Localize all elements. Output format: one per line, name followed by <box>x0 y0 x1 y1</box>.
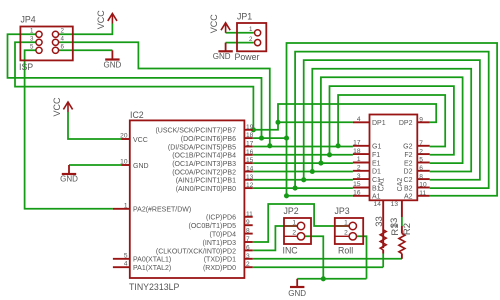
svg-text:2: 2 <box>344 230 348 237</box>
svg-text:1: 1 <box>249 26 253 33</box>
svg-text:9: 9 <box>246 219 250 226</box>
wire JP1.2 to GND <box>226 42 254 44</box>
svg-text:12: 12 <box>246 182 254 189</box>
svg-text:19: 19 <box>246 124 254 131</box>
wire display pin13 to R2 top <box>401 217 403 226</box>
wire RESET JP4.5 to PA2 <box>25 50 113 209</box>
junction net G <box>336 143 341 148</box>
svg-text:VCC: VCC <box>96 10 106 30</box>
junction net DP <box>275 120 280 125</box>
svg-text:6: 6 <box>419 165 423 172</box>
svg-text:1: 1 <box>124 202 128 209</box>
wire arc net B <box>295 52 489 189</box>
svg-text:2: 2 <box>357 164 361 171</box>
svg-text:GND: GND <box>213 52 231 61</box>
svg-text:ISP: ISP <box>19 62 33 72</box>
connector JP4 ISP header <box>20 27 72 61</box>
svg-text:PA2(#RESET/DW): PA2(#RESET/DW) <box>133 207 191 214</box>
svg-text:(AIN0/PCINT0)PB0: (AIN0/PCINT0)PB0 <box>176 186 236 193</box>
svg-text:F2: F2 <box>404 152 412 159</box>
wire IC2 pin 10 to GND <box>69 164 121 166</box>
wire ISP SCK JP4.3 to PB7 <box>15 42 253 130</box>
svg-text:GND: GND <box>104 60 122 69</box>
svg-text:9: 9 <box>419 117 423 124</box>
wire PD2 to JP2.1 INC <box>253 226 297 250</box>
svg-text:DP2: DP2 <box>399 120 413 127</box>
svg-text:1: 1 <box>357 156 361 163</box>
svg-text:11: 11 <box>419 190 426 197</box>
svg-text:5: 5 <box>124 252 128 259</box>
wire net E PB3 row to E1 <box>253 162 353 164</box>
svg-text:DP1: DP1 <box>372 120 386 127</box>
svg-text:11: 11 <box>246 211 253 218</box>
svg-text:(OC1A/PCINT3)PB3: (OC1A/PCINT3)PB3 <box>172 161 236 168</box>
junction GND rail <box>321 276 326 281</box>
svg-text:VCC: VCC <box>52 97 62 117</box>
svg-text:2: 2 <box>246 261 250 268</box>
VCC symbol at JP4 <box>108 14 117 24</box>
IC2 right pin stubs <box>244 129 252 131</box>
svg-text:14: 14 <box>246 165 254 172</box>
resistor R1 zigzag <box>380 230 386 250</box>
svg-text:8: 8 <box>246 228 250 235</box>
svg-text:PA0(XTAL1): PA0(XTAL1) <box>133 257 171 264</box>
svg-text:17: 17 <box>246 140 254 147</box>
svg-text:A1: A1 <box>372 194 381 201</box>
svg-text:D1: D1 <box>372 169 381 176</box>
wire arc net D <box>312 69 471 172</box>
svg-text:JP1: JP1 <box>237 12 252 22</box>
wire net A row to A1 <box>287 195 353 197</box>
GND symbol at IC2 pin 10 <box>68 165 70 174</box>
svg-text:1: 1 <box>292 219 296 226</box>
svg-text:JP4: JP4 <box>21 15 36 25</box>
IC2 left pin stubs <box>121 138 130 140</box>
wire JP4.2 to VCC <box>59 24 113 35</box>
IC U IC2 TINY2313LP body <box>130 120 245 278</box>
svg-text:4: 4 <box>357 116 361 123</box>
svg-text:(DI/SDA/PCINT5)PB5: (DI/SDA/PCINT5)PB5 <box>168 144 236 151</box>
svg-text:INC: INC <box>283 245 299 255</box>
svg-text:2: 2 <box>419 148 423 155</box>
junction net C <box>301 177 306 182</box>
svg-text:VCC: VCC <box>133 137 148 144</box>
svg-text:JP2: JP2 <box>284 206 299 216</box>
svg-text:2: 2 <box>249 36 253 43</box>
svg-text:2: 2 <box>292 230 296 237</box>
svg-text:18: 18 <box>353 148 361 155</box>
VCC symbol at IC2 pin 20 <box>63 102 72 112</box>
svg-text:R2: R2 <box>402 223 413 235</box>
svg-text:(RXD)PD0: (RXD)PD0 <box>203 265 236 272</box>
junction PB7/SCK <box>251 127 256 132</box>
svg-text:15: 15 <box>353 181 361 188</box>
svg-text:GND: GND <box>288 289 306 298</box>
wire PD0 row to R1 <box>253 266 384 268</box>
svg-text:8: 8 <box>419 173 423 180</box>
wire arc net C <box>304 60 480 180</box>
svg-text:(OC1B/PCINT4)PB4: (OC1B/PCINT4)PB4 <box>172 153 236 160</box>
svg-text:PA1(XTAL2): PA1(XTAL2) <box>133 265 171 272</box>
junction net E <box>318 161 323 166</box>
svg-text:3: 3 <box>246 253 250 260</box>
svg-text:(USCK/SCK/PCINT7)PB7: (USCK/SCK/PCINT7)PB7 <box>155 128 236 135</box>
svg-text:VCC: VCC <box>209 14 219 34</box>
wire net G PB5 row to G1 <box>253 146 353 148</box>
wire R1 bottom to PD0 row <box>382 254 384 268</box>
svg-text:16: 16 <box>353 189 361 196</box>
svg-text:4: 4 <box>61 36 65 43</box>
svg-text:7: 7 <box>246 236 250 243</box>
wire arc net A (A1-A2 over top) <box>287 43 498 196</box>
svg-text:7: 7 <box>419 140 423 147</box>
svg-text:(ICP)PD6: (ICP)PD6 <box>206 215 236 222</box>
junction net A at PB6 <box>284 136 289 141</box>
wire net D PB2 row to D1 <box>253 171 353 173</box>
svg-text:A2: A2 <box>404 194 413 201</box>
connector JP1 Power <box>237 23 266 51</box>
svg-text:(AIN1/PCINT1)PB1: (AIN1/PCINT1)PB1 <box>176 178 236 185</box>
svg-text:G2: G2 <box>403 144 412 151</box>
wire VCC to IC2 pin 20 <box>68 112 121 139</box>
svg-text:B2: B2 <box>404 185 413 192</box>
svg-text:GND: GND <box>60 175 78 184</box>
svg-text:(T0)PD4: (T0)PD4 <box>210 232 237 239</box>
svg-text:16: 16 <box>246 149 254 156</box>
resistor R2 zigzag <box>401 226 403 234</box>
display left pin stubs <box>353 121 370 123</box>
svg-text:6: 6 <box>61 44 65 51</box>
svg-text:JP3: JP3 <box>335 206 350 216</box>
svg-text:13: 13 <box>391 201 399 208</box>
svg-text:4: 4 <box>124 261 128 268</box>
wire arc net G <box>338 95 445 147</box>
display dual 7-segment body <box>370 115 418 201</box>
wire JP3.2 to GND rail <box>357 236 367 278</box>
svg-text:17: 17 <box>353 140 361 147</box>
svg-text:10: 10 <box>419 182 427 189</box>
svg-text:2: 2 <box>61 28 65 35</box>
wire JP4.6 to GND <box>59 49 113 51</box>
svg-text:15: 15 <box>246 157 254 164</box>
junction net B <box>293 186 298 191</box>
svg-text:33: 33 <box>374 216 385 227</box>
svg-text:(INT1)PD3: (INT1)PD3 <box>203 240 237 247</box>
svg-text:20: 20 <box>120 133 128 140</box>
svg-text:18: 18 <box>246 132 254 139</box>
junction net F <box>327 152 332 157</box>
svg-text:3: 3 <box>30 36 34 43</box>
display bottom pin stubs / resistor top leads <box>382 200 384 248</box>
svg-text:(OC0B/T1)PD5: (OC0B/T1)PD5 <box>189 223 237 230</box>
svg-text:Power: Power <box>235 52 260 62</box>
VCC symbol at JP1 <box>221 23 230 33</box>
svg-text:(OC0A/PCINT2)PB2: (OC0A/PCINT2)PB2 <box>172 169 236 176</box>
wire JP2.2 to GND rail <box>305 236 323 278</box>
svg-text:E2: E2 <box>404 160 413 167</box>
svg-text:E1: E1 <box>372 160 381 167</box>
junction net A at A1 row <box>284 193 289 198</box>
svg-text:CA2: CA2 <box>397 178 404 192</box>
GND symbol bottom rail <box>296 279 298 287</box>
svg-text:5: 5 <box>419 157 423 164</box>
wire net A PB6 row <box>253 137 287 139</box>
junction net D <box>310 169 315 174</box>
svg-text:1: 1 <box>344 219 348 226</box>
svg-text:14: 14 <box>374 201 382 208</box>
wire ISP MISO JP4.1 to PB6 <box>8 34 262 138</box>
svg-text:TINY2313LP: TINY2313LP <box>129 282 179 292</box>
svg-text:GND: GND <box>133 163 149 170</box>
svg-text:D2: D2 <box>404 169 413 176</box>
svg-text:5: 5 <box>30 44 34 51</box>
svg-text:IC2: IC2 <box>130 110 144 120</box>
wire net B PB0 row to B1 <box>253 187 353 189</box>
junction PB5/MOSI <box>267 143 272 148</box>
svg-text:G1: G1 <box>372 144 381 151</box>
wire net F PB4 row to F1 <box>253 154 353 156</box>
svg-text:33: 33 <box>389 218 400 229</box>
wire arc net E <box>321 77 463 163</box>
connector JP2 INC <box>284 218 311 244</box>
svg-text:13: 13 <box>246 174 254 181</box>
wire JP1.1 to VCC <box>226 32 254 34</box>
GND symbol at JP1 <box>225 43 227 52</box>
svg-text:6: 6 <box>246 244 250 251</box>
wire arc net DP <box>278 104 436 122</box>
svg-text:(CLKOUT/XCK/INT0)PD2: (CLKOUT/XCK/INT0)PD2 <box>156 248 236 255</box>
svg-text:C2: C2 <box>404 177 413 184</box>
svg-text:Roll: Roll <box>338 245 353 255</box>
svg-text:1: 1 <box>30 28 34 35</box>
svg-text:CA1: CA1 <box>378 178 385 192</box>
svg-text:(DO/PCINT6)PB6: (DO/PCINT6)PB6 <box>181 136 236 143</box>
wire net C PB1 row to C1 <box>253 179 353 181</box>
svg-text:F1: F1 <box>372 152 380 159</box>
junction PB6/MISO <box>259 136 264 141</box>
wire PD3 to JP3.1 Roll <box>253 204 349 242</box>
wire PD1 row to R2 <box>253 258 402 260</box>
svg-text:3: 3 <box>357 173 361 180</box>
svg-text:(TXD)PD1: (TXD)PD1 <box>204 257 236 264</box>
wire GND rail <box>297 278 366 280</box>
wire net DP PB7 row to DP1 <box>253 122 353 130</box>
wire arc net F <box>330 86 454 155</box>
svg-text:10: 10 <box>120 159 128 166</box>
connector JP3 Roll <box>335 218 363 244</box>
display right pin stubs <box>417 121 429 123</box>
wire ISP MOSI JP4.4 to PB5 <box>59 42 270 146</box>
GND symbol at JP4 <box>111 50 113 59</box>
